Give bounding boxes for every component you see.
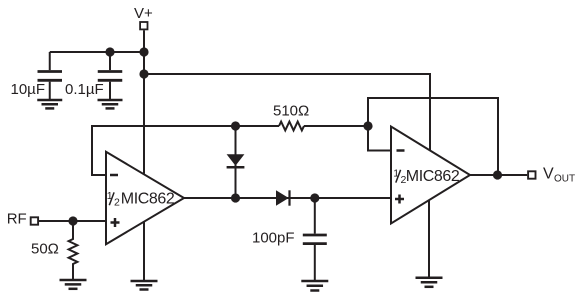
U1 inverting pin symbol [110,174,118,177]
wire V+ rail to U2 [144,74,430,150]
ground under C1 [37,100,62,108]
junction clamp diode top [231,121,240,130]
op-amp U2 ½MIC862 [391,127,470,224]
svg-text:V: V [543,166,554,183]
capacitor C3 100pF [303,198,327,281]
junction V+ rail to U2 [139,69,148,78]
terminal VOUT [528,171,535,178]
wire RF input [39,220,107,222]
svg-text:100pF: 100pF [252,230,295,247]
ground under U1 [131,281,158,290]
resistor R2 510Ω [279,122,304,131]
wire bypass rail [50,51,144,53]
op-amp U1 ½MIC862 [106,152,184,244]
wire U2 feedback loop [368,98,498,175]
U1 non-inverting pin symbol [111,218,120,227]
terminal RF [31,217,38,224]
junction bypass rail [139,47,148,56]
junction 100pF node [310,193,319,202]
U2 inverting pin symbol [397,149,405,152]
svg-text:510Ω: 510Ω [273,103,309,120]
ground under U2 [416,278,443,287]
wire U2 negative supply [428,200,430,277]
junction RF / 50Ω [68,216,77,225]
U2 non-inverting pin symbol [395,195,404,204]
svg-text:0.1µF: 0.1µF [65,81,104,98]
diode D2 series (pointing right) [276,190,290,205]
wire R2 to U2 inverting node [304,125,368,127]
junction output node [493,170,502,179]
ground under C2 [98,100,123,108]
capacitor C1 10µF [38,52,63,100]
ground under R1 [60,280,87,289]
label ½MIC862 (U2) [393,167,460,186]
diode D1 clamp (pointing down) [227,154,245,167]
wire clamp diode branch [235,126,237,198]
terminal V+ [140,22,147,29]
wire U1 negative supply [143,221,145,281]
ground under C3 [301,281,328,291]
resistor R1 50Ω [69,221,78,280]
svg-text:V+: V+ [134,5,153,22]
wire U1 feedback (inverting input loop) [92,126,279,175]
label VOUT [543,166,575,185]
label ½MIC862 (U1) [107,190,175,209]
svg-text:RF: RF [7,210,27,227]
svg-text:50Ω: 50Ω [31,241,59,258]
fraction slash (U1 label) [109,192,114,205]
fraction slash (U2 label) [396,170,401,183]
svg-text:MIC862: MIC862 [121,190,175,207]
wire U2 output [470,174,527,176]
svg-text:MIC862: MIC862 [406,168,460,185]
svg-text:OUT: OUT [554,174,575,185]
svg-text:2: 2 [114,197,120,209]
junction U2 inverting node [363,121,372,130]
junction 0.1µF tap [105,47,114,56]
junction clamp diode / output [231,193,240,202]
wire U2 inverting input [368,126,391,151]
svg-text:10µF: 10µF [11,81,46,98]
wire U1 output to U2 non-inverting input [184,197,391,199]
wire V+ vertical to U1 [143,30,145,173]
capacitor C2 0.1µF [98,52,123,100]
